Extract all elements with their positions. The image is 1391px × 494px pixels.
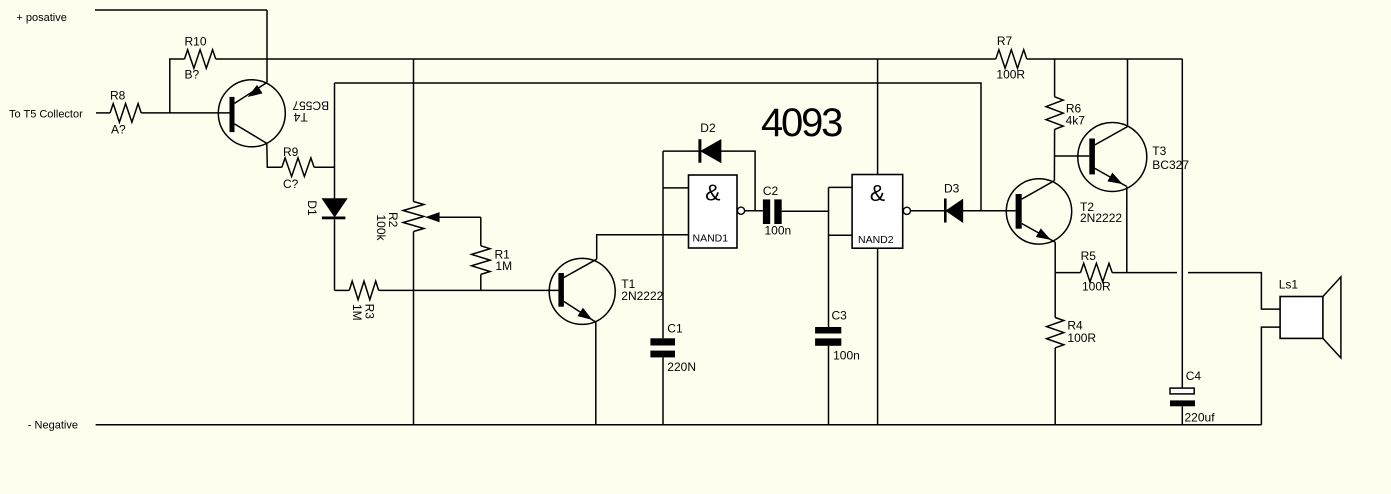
transistor T2 base bar (1016, 194, 1022, 229)
nand gate NAND1 box (689, 175, 738, 248)
svg-text:&: & (870, 180, 885, 206)
wire R6 to T2 collector (1053, 129, 1055, 180)
svg-text:100R: 100R (1082, 280, 1111, 294)
wire T3 base stub (1055, 155, 1090, 157)
svg-text:1M: 1M (350, 304, 364, 321)
svg-text:C4: C4 (1186, 369, 1202, 383)
svg-text:220uf: 220uf (1185, 410, 1216, 424)
svg-text:R8: R8 (110, 89, 126, 103)
transistor T3 collector line (1095, 127, 1128, 145)
wire NAND2 lower input stub (829, 234, 853, 236)
resistor R4 (1047, 318, 1064, 348)
capacitor C4 bottom plate (1170, 400, 1195, 406)
diode D2 cathode bar (698, 139, 701, 163)
svg-text:R5: R5 (1081, 249, 1097, 263)
transistor T4 emitter arrow (250, 86, 262, 96)
svg-text:R10: R10 (185, 34, 207, 48)
svg-text:2N2222: 2N2222 (621, 289, 663, 303)
wire R4 bottom (1054, 348, 1056, 425)
wire D2 to output (721, 151, 756, 211)
svg-text:C2: C2 (763, 184, 779, 198)
resistor R10 (185, 50, 216, 69)
svg-text:NAND2: NAND2 (858, 234, 894, 246)
transistor T3 base bar (1089, 139, 1095, 175)
wire R3 to T1 base (379, 289, 559, 291)
nand gate NAND1 output bubble (737, 207, 744, 214)
resistor R7 (996, 50, 1027, 69)
wire speaker lower feed (1261, 327, 1280, 425)
wire T2 emitter down (1054, 242, 1056, 273)
wire NAND1 upper input stub (663, 187, 689, 189)
svg-text:+ posative: + posative (16, 12, 66, 24)
transistor T2 circle (1006, 179, 1071, 244)
resistor R6 (1046, 97, 1063, 130)
wire D3 to T2 base (962, 210, 1015, 212)
wire T3 emitter down (1126, 186, 1128, 272)
capacitor C2 right plate (774, 199, 781, 224)
svg-text:D1: D1 (305, 200, 319, 216)
wire T1 collector up (597, 235, 689, 259)
svg-text:BC327: BC327 (1152, 158, 1189, 172)
wire C4 to ground (1181, 406, 1183, 425)
transistor T1 base bar (558, 273, 564, 307)
wire T3 collector up (1127, 59, 1129, 127)
svg-text:2N2222: 2N2222 (1080, 211, 1122, 225)
wire D1 corner to R3 (335, 289, 350, 291)
wire input to R8 (96, 112, 110, 114)
wire rail2 to R9 junction (334, 83, 336, 199)
svg-text:4093: 4093 (761, 101, 842, 145)
svg-text:&: & (705, 179, 720, 205)
svg-text:C3: C3 (832, 308, 848, 322)
svg-text:R7: R7 (997, 34, 1013, 48)
svg-text:B?: B? (185, 68, 200, 82)
nand gate NAND2 box (852, 175, 903, 249)
wire R2 bottom (413, 232, 415, 425)
svg-text:100R: 100R (996, 67, 1025, 81)
resistor R3 (349, 281, 378, 300)
wire NAND1 input net (662, 151, 664, 338)
transistor T1 emitter arrow (579, 309, 591, 319)
capacitor C2 left plate (763, 199, 770, 224)
svg-text:100R: 100R (1067, 331, 1096, 345)
wire C4 top feed (1181, 59, 1183, 388)
svg-text:- Negative: - Negative (28, 419, 78, 431)
transistor T4 base bar (230, 97, 235, 132)
wire NAND2 bottom pin (877, 248, 879, 425)
svg-text:C1: C1 (667, 321, 683, 335)
capacitor C3 bottom plate (815, 338, 841, 345)
svg-text:4k7: 4k7 (1066, 114, 1086, 128)
svg-text:220N: 220N (667, 360, 696, 374)
transistor T4 emitter line (235, 82, 268, 103)
transistor T2 emitter line (1022, 224, 1055, 243)
svg-text:D3: D3 (944, 182, 960, 196)
wire negative ground rail (96, 424, 1262, 426)
svg-text:100n: 100n (765, 224, 792, 238)
resistor R1 (472, 246, 491, 275)
wire NAND2 input vertical (828, 187, 830, 327)
transistor T2 emitter arrow (1037, 230, 1049, 239)
wire R1 to base line (480, 274, 482, 290)
transistor T2 collector line (1022, 181, 1055, 199)
diode D1 triangle (323, 199, 346, 216)
transistor T3 circle (1078, 123, 1147, 192)
wire C3 to ground rail (828, 346, 830, 425)
wire R9 to D1 net (314, 166, 334, 168)
svg-text:1M: 1M (495, 259, 512, 273)
svg-text:A?: A? (111, 123, 126, 137)
svg-text:T3: T3 (1152, 144, 1166, 158)
diode D2 triangle (702, 140, 721, 162)
transistor T4 collector line (235, 124, 267, 143)
svg-text:100n: 100n (833, 349, 860, 363)
transistor T1 collector line (564, 259, 597, 277)
wire C2 to NAND2 inputs (782, 210, 829, 212)
svg-text:To T5 Collector: To T5 Collector (9, 109, 83, 121)
capacitor C1 bottom plate (650, 351, 675, 358)
svg-text:R9: R9 (283, 145, 299, 159)
svg-text:T4: T4 (293, 110, 307, 124)
capacitor C4 top plate (1170, 388, 1194, 394)
svg-text:NAND1: NAND1 (693, 233, 729, 245)
svg-text:C?: C? (283, 177, 299, 191)
wire R10 lead (169, 58, 184, 60)
svg-text:Ls1: Ls1 (1279, 277, 1299, 291)
wire T2 emitter to R5 (1055, 272, 1080, 274)
transistor T1 circle (549, 258, 615, 324)
wire R5 right segment (1112, 272, 1177, 274)
wiper arrow of R2 (427, 213, 439, 221)
wire rail after R7 (1027, 58, 1183, 60)
wire NAND1 output to C2 (745, 210, 763, 212)
svg-text:D2: D2 (700, 121, 716, 135)
wire R2 top (413, 59, 415, 202)
wire NAND2 output to D3 (911, 210, 944, 212)
transistor T3 emitter arrow (1109, 174, 1121, 183)
transistor T1 emitter line (564, 302, 596, 323)
wire wiper to R1 (480, 217, 482, 246)
resistor R5 (1081, 263, 1113, 282)
diode D3 cathode bar (944, 199, 947, 223)
wire top distribution rail (216, 58, 996, 60)
wire NAND2 upper input stub (829, 186, 853, 188)
resistor R9 (282, 158, 314, 177)
nand gate NAND2 output bubble (903, 207, 910, 214)
capacitor C3 top plate (815, 327, 841, 334)
wire speaker upper feed (1188, 273, 1280, 310)
wire R10 left leg (169, 59, 171, 113)
wire C1 to ground (662, 357, 664, 424)
wire R4 top (1054, 273, 1056, 318)
wire T4 emitter to top rail (266, 10, 268, 82)
transistor T3 emitter line (1095, 168, 1127, 186)
wire + positive top rail (95, 9, 267, 11)
wire R6 top (1054, 59, 1056, 97)
wire second rail (335, 83, 982, 211)
wire NAND2 top pin (877, 59, 879, 175)
resistor R2 (403, 202, 424, 232)
wire T1 emitter down (595, 322, 597, 425)
transistor T4 circle (218, 80, 285, 147)
wire T4 collector lead (267, 143, 282, 167)
resistor R8 (110, 104, 141, 123)
wire D1 to R3 (334, 219, 336, 290)
capacitor C1 top plate (650, 338, 675, 345)
speaker Ls1 horn (1323, 277, 1341, 358)
svg-text:100k: 100k (374, 215, 388, 242)
speaker Ls1 box (1280, 297, 1323, 339)
diode D1 cathode bar (322, 217, 346, 220)
wire D2 anode lead (663, 150, 698, 152)
wire R8 to T4 base (141, 112, 229, 114)
wire R2 wiper (437, 216, 481, 218)
diode D3 triangle (947, 200, 963, 222)
